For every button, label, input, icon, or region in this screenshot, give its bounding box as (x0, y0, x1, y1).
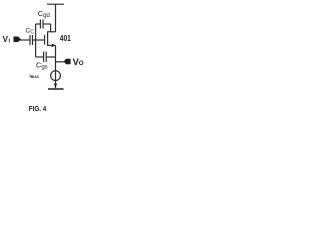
svg-text:FIG. 4: FIG. 4 (29, 104, 47, 113)
transistor Q 401 gate bar (44, 35, 46, 45)
wire Cgd down to drain (50, 24, 52, 32)
svg-text:VI: VI (3, 35, 11, 44)
current source I circle (51, 71, 61, 81)
svg-text:IBIAS: IBIAS (30, 74, 40, 80)
capacitor Cc plates (29, 35, 31, 45)
wire gate (33, 39, 45, 41)
wire input (19, 39, 31, 41)
supply rail (47, 3, 64, 5)
wire tap vertical (gate to Cgd/Cgs) (35, 24, 37, 57)
capacitor Cgs plates (43, 52, 45, 63)
wire Cgs left (36, 56, 44, 58)
wire Cgs right (46, 56, 55, 58)
wire drain vertical (55, 4, 57, 32)
svg-text:401: 401 (60, 33, 71, 43)
capacitor Cgd plates (39, 20, 41, 29)
svg-text:Cgd: Cgd (38, 9, 50, 19)
svg-text:CC: CC (26, 28, 35, 36)
current source arrow line (55, 71, 57, 89)
transistor source arrow head (52, 44, 56, 48)
wire source vertical (55, 45, 57, 70)
wire Cgd right (43, 23, 51, 25)
wire drain lead (48, 31, 56, 33)
terminal Vi (14, 37, 21, 43)
wire source lead (48, 44, 56, 46)
transistor Q 401 channel bar (47, 31, 49, 46)
ground (48, 88, 64, 90)
wire output (56, 61, 66, 63)
wire Cgd left (36, 23, 41, 25)
terminal Vo (64, 59, 71, 64)
svg-text:VO: VO (73, 57, 84, 67)
current source arrow head (54, 84, 57, 88)
